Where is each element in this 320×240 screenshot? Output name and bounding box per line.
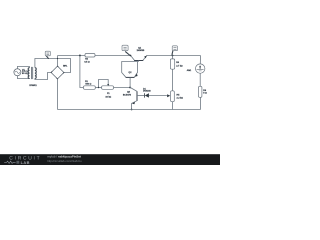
svg-text:mylab / nakkipacaPinSet: mylab / nakkipacaPinSet: [47, 155, 81, 159]
svg-text:9 Ω: 9 Ω: [203, 92, 207, 95]
svg-text:0.5 Ω: 0.5 Ω: [84, 61, 90, 64]
svg-text:AM1: AM1: [187, 69, 192, 72]
svg-text:940 Ω: 940 Ω: [85, 83, 91, 86]
svg-text:2.2 kΩ: 2.2 kΩ: [177, 97, 184, 100]
svg-text:60 Hz: 60 Hz: [22, 72, 28, 75]
svg-text:2.7 kΩ: 2.7 kΩ: [176, 65, 183, 68]
svg-text:1N4148: 1N4148: [143, 90, 151, 93]
svg-text:XFMR1: XFMR1: [29, 84, 37, 87]
svg-text:BC547B: BC547B: [123, 94, 132, 97]
svg-text:2N3055: 2N3055: [137, 49, 145, 52]
svg-text:10 kΩ: 10 kΩ: [105, 95, 111, 98]
svg-text:LAB: LAB: [21, 160, 30, 165]
svg-text:http:∕∕circuitlab.com∕c9a62cu: http:∕∕circuitlab.com∕c9a62cu: [47, 159, 82, 163]
